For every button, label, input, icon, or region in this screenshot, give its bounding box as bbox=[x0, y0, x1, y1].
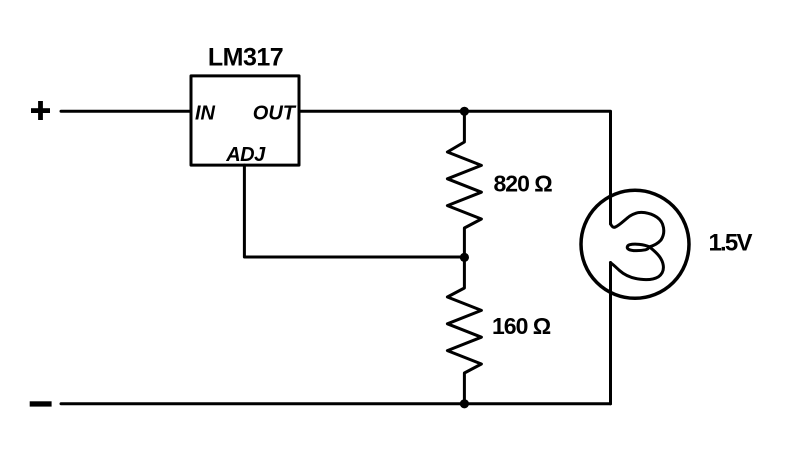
regulator U1 LM317 box bbox=[191, 76, 299, 165]
node A junction dot bbox=[460, 107, 469, 116]
wire from OUT pin to node A bbox=[299, 110, 464, 113]
svg-text:IN: IN bbox=[195, 102, 216, 124]
lamp top lead wire bbox=[609, 188, 612, 224]
svg-text:ADJ: ADJ bbox=[225, 144, 266, 166]
svg-text:OUT: OUT bbox=[253, 102, 297, 124]
node C junction dot bbox=[460, 399, 469, 408]
node B junction dot bbox=[460, 253, 469, 262]
lamp DS1 envelope circle bbox=[581, 190, 689, 298]
wire ADJ pin down and right to node B bbox=[244, 165, 464, 257]
resistor R2 160 ohm bbox=[447, 257, 481, 403]
svg-text:1.5V: 1.5V bbox=[709, 229, 753, 256]
terminal + (positive supply) bbox=[31, 101, 50, 120]
lamp bottom lead wire bbox=[609, 263, 612, 404]
wire from node A to lamp top corner bbox=[464, 111, 610, 188]
bottom wire from - terminal to lamp bottom corner bbox=[61, 402, 611, 405]
svg-text:160 Ω: 160 Ω bbox=[492, 313, 551, 339]
resistor R1 820 ohm bbox=[447, 111, 481, 257]
lamp filament bbox=[611, 212, 664, 279]
svg-text:820 Ω: 820 Ω bbox=[494, 171, 553, 197]
svg-text:LM317: LM317 bbox=[208, 44, 283, 72]
wire from + terminal to IN pin bbox=[61, 110, 191, 113]
terminal - (negative supply) bbox=[30, 401, 52, 406]
